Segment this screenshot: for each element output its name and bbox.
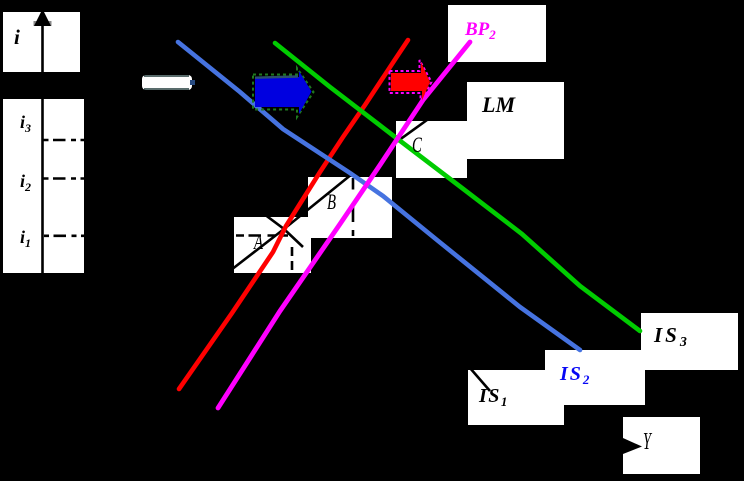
- svg-text:LM: LM: [481, 92, 516, 117]
- svg-text:i: i: [14, 25, 20, 49]
- svg-text:C: C: [412, 133, 422, 158]
- svg-text:B: B: [327, 190, 336, 215]
- svg-text:A: A: [252, 230, 263, 255]
